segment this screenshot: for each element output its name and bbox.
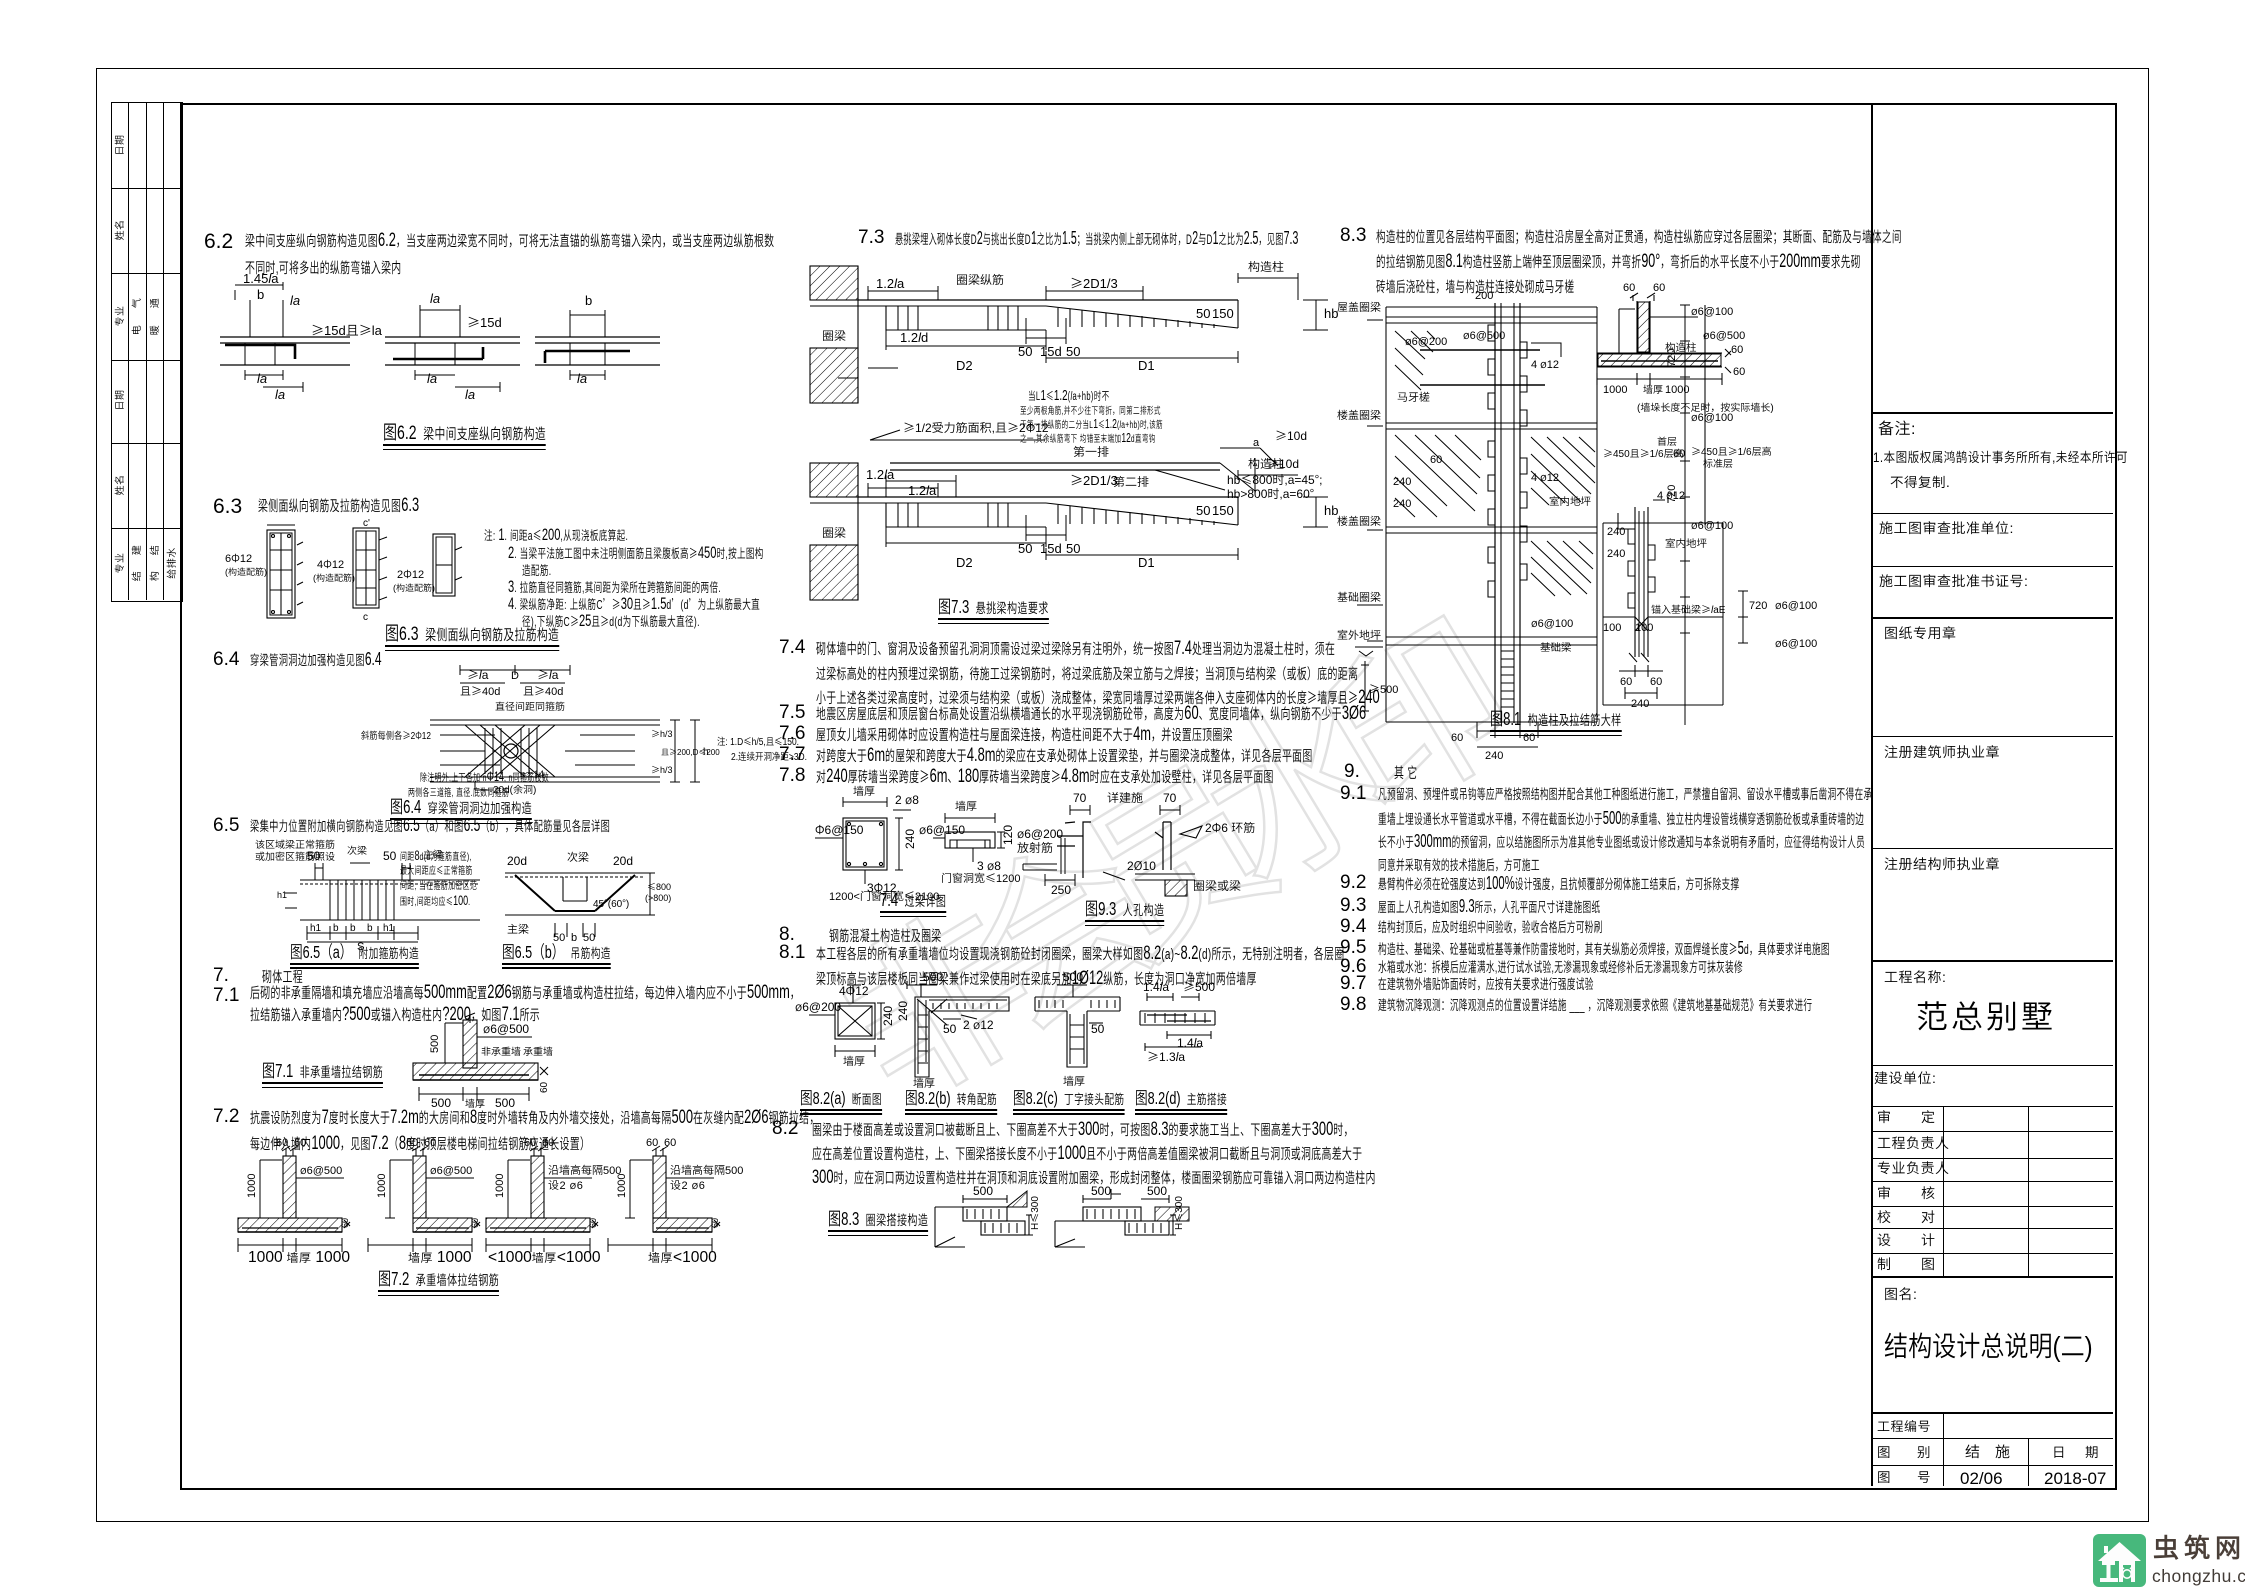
svg-text:120: 120 (999, 825, 1016, 845)
svg-text:200: 200 (1475, 287, 1493, 303)
svg-text:240: 240 (1607, 545, 1625, 561)
svg-text:ø6@100: ø6@100 (1775, 635, 1817, 651)
svg-text:≥1.3la: ≥1.3la (1147, 1048, 1185, 1065)
svg-text:1000: 1000 (1665, 381, 1689, 397)
figure 6.5b hanging bars (495, 845, 660, 945)
svg-text:2Φ6 环筋: 2Φ6 环筋 (1205, 819, 1255, 836)
svg-text:Φ6@150: Φ6@150 (815, 821, 864, 838)
svg-text:基础圈梁: 基础圈梁 (1337, 589, 1381, 605)
svg-text:D2: D2 (956, 552, 973, 571)
svg-text:50: 50 (383, 847, 397, 864)
svg-text:70: 70 (1163, 789, 1177, 806)
svg-text:240: 240 (894, 1001, 911, 1021)
svg-text:圈梁纵筋: 圈梁纵筋 (956, 271, 1004, 288)
svg-text:主梁: 主梁 (507, 921, 529, 937)
svg-text:150: 150 (1212, 500, 1234, 519)
svg-text:1000: 1000 (373, 1174, 389, 1198)
svg-text:标准层: 标准层 (1703, 455, 1733, 470)
svg-text:≥15d: ≥15d (467, 312, 502, 331)
svg-text:≥h/3: ≥h/3 (651, 727, 673, 740)
svg-text:60: 60 (708, 1218, 721, 1228)
(d) lap (1140, 1011, 1215, 1025)
svg-text:斜筋每侧各≥2Φ12: 斜筋每侧各≥2Φ12 (361, 727, 431, 742)
svg-text:室内地坪: 室内地坪 (1665, 536, 1707, 551)
svg-text:la: la (275, 384, 285, 403)
svg-text:50: 50 (1018, 538, 1032, 557)
svg-text:50: 50 (1066, 538, 1080, 557)
figure 7.1 non-bearing wall ties (405, 1015, 595, 1110)
svg-text:详建施: 详建施 (1107, 789, 1143, 806)
svg-text:(构造配筋): (构造配筋) (225, 565, 267, 578)
svg-text:1.4la: 1.4la (1143, 978, 1169, 995)
svg-text:(墙垛长度不足时，按实际墙长): (墙垛长度不足时，按实际墙长) (1637, 399, 1774, 414)
svg-text:240: 240 (1485, 747, 1503, 763)
svg-text:1.2la: 1.2la (876, 273, 905, 292)
svg-text:60: 60 (1653, 279, 1665, 295)
svg-text:1.2la: 1.2la (866, 464, 895, 483)
svg-text:楼盖圈梁: 楼盖圈梁 (1337, 513, 1381, 529)
svg-text:次梁: 次梁 (567, 849, 589, 865)
svg-text:≥500: ≥500 (1183, 978, 1215, 995)
section 6.4 (213, 650, 239, 669)
svg-text:圈梁或梁: 圈梁或梁 (1193, 877, 1241, 894)
svg-text:沿墙高每隔500: 沿墙高每隔500 (670, 1162, 743, 1178)
svg-text:60: 60 (1673, 445, 1685, 461)
figure 7.3 middle note + second排 (1028, 390, 1110, 403)
svg-text:la: la (290, 290, 300, 309)
svg-text:≥la: ≥la (467, 666, 489, 683)
svg-text:500: 500 (426, 1035, 442, 1053)
section 6.3 (213, 496, 242, 517)
svg-text:H≤300: H≤300 (1170, 1196, 1185, 1230)
section 7.2 (213, 1107, 239, 1126)
figure 7.4 lintel details (815, 790, 1015, 900)
svg-text:构造柱: 构造柱 (1248, 258, 1284, 275)
svg-text:2 ø8: 2 ø8 (895, 791, 919, 808)
svg-text:c: c (363, 608, 368, 623)
svg-text:且≥40d: 且≥40d (523, 683, 563, 699)
svg-text:圈梁: 圈梁 (822, 327, 846, 344)
svg-text:ø6@100: ø6@100 (1691, 303, 1733, 319)
svg-text:1000: 1000 (1603, 381, 1627, 397)
svg-text:240: 240 (901, 829, 918, 849)
svg-text:la: la (427, 368, 437, 387)
svg-text:720: 720 (1749, 597, 1767, 613)
svg-text:a: a (1253, 434, 1260, 450)
floor ring beams (1386, 423, 1597, 429)
svg-text:D1: D1 (1138, 355, 1155, 374)
svg-text:≥15d且≥la: ≥15d且≥la (311, 320, 383, 339)
svg-text:4 ø12: 4 ø12 (1657, 487, 1685, 503)
figure 8.3 ring beam lap (925, 1185, 1205, 1270)
svg-text:60: 60 (1650, 673, 1662, 689)
svg-text:≥h/3: ≥h/3 (651, 763, 673, 776)
svg-text:50: 50 (1091, 1020, 1105, 1037)
svg-text:50: 50 (1196, 500, 1210, 519)
notes right of 6.5a (400, 851, 472, 863)
figure 9.3 manhole (1015, 778, 1245, 898)
svg-text:c': c' (363, 514, 370, 529)
svg-text:D: D (511, 667, 519, 683)
svg-text:马牙槎: 马牙槎 (1397, 389, 1430, 405)
sections 7.4 - 7.8 (779, 638, 805, 657)
svg-text:240: 240 (1607, 523, 1625, 539)
svg-text:室内地坪: 室内地坪 (1549, 494, 1591, 509)
svg-text:240: 240 (1393, 473, 1411, 489)
svg-text:500: 500 (1091, 1182, 1111, 1199)
svg-text:圈梁: 圈梁 (822, 524, 846, 541)
svg-text:50: 50 (1018, 341, 1032, 360)
svg-text:墙厚: 墙厚 (1063, 1073, 1085, 1089)
figure 8.2 group ring-beam details (795, 985, 1215, 1090)
svg-text:≥450且≥1/6层高: ≥450且≥1/6层高 (1603, 445, 1684, 460)
svg-text:ø6@500: ø6@500 (300, 1162, 342, 1178)
svg-text:60: 60 (1451, 729, 1463, 745)
svg-text:1000: 1000 (613, 1174, 629, 1198)
svg-text:≥10d: ≥10d (1275, 427, 1307, 444)
svg-text:构造柱: 构造柱 (1248, 455, 1284, 472)
section 7 masonry (213, 966, 229, 985)
svg-text:D2: D2 (956, 355, 973, 374)
svg-text:60: 60 (542, 1134, 554, 1150)
svg-text:室外地坪: 室外地坪 (1337, 627, 1381, 643)
notes for figure 6.3 (484, 528, 628, 541)
left detail (935, 1207, 965, 1247)
svg-text:50: 50 (1196, 303, 1210, 322)
svg-text:la: la (257, 368, 267, 387)
svg-text:b: b (257, 284, 264, 303)
svg-text:100: 100 (1635, 619, 1653, 635)
central vertical dim chain (1680, 305, 1690, 425)
svg-text:50: 50 (943, 1020, 957, 1037)
svg-text:15d: 15d (1040, 341, 1062, 360)
svg-text:ø6@200: ø6@200 (1405, 333, 1447, 349)
svg-text:60: 60 (406, 1134, 418, 1150)
svg-text:ø6@150: ø6@150 (919, 821, 965, 838)
svg-text:60: 60 (1430, 451, 1442, 467)
svg-text:1000: 1000 (243, 1174, 259, 1198)
chongzhu logo (2093, 1534, 2146, 1587)
svg-text:(构造配筋): (构造配筋) (313, 571, 355, 584)
svg-text:20d: 20d (613, 852, 633, 869)
svg-text:(>800): (>800) (645, 891, 671, 904)
left elevation outer box (1386, 307, 1597, 722)
svg-text:240: 240 (1393, 495, 1411, 511)
svg-text:ø6@500: ø6@500 (483, 1020, 529, 1037)
svg-text:b: b (333, 919, 339, 934)
svg-text:150: 150 (1212, 303, 1234, 322)
roof ring beam double line (1386, 317, 1597, 323)
section 6.5 (213, 816, 239, 835)
bottom dims (1477, 722, 1538, 738)
beam 1 (220, 337, 350, 365)
figure 6.5a additional stirrups (255, 838, 505, 950)
svg-text:b: b (585, 290, 592, 309)
svg-text:≥la: ≥la (537, 666, 559, 683)
svg-text:4 ø12: 4 ø12 (1531, 356, 1559, 372)
svg-text:ø6@100: ø6@100 (1775, 597, 1817, 613)
figure 7.3 cantilever beam (lower) (808, 455, 1338, 605)
svg-text:b: b (350, 919, 356, 934)
section 9 misc (1344, 762, 1360, 781)
svg-text:墙厚: 墙厚 (843, 1053, 865, 1069)
svg-text:60: 60 (1623, 279, 1635, 295)
(a) section (835, 1003, 875, 1039)
svg-text:2Φ12: 2Φ12 (397, 566, 424, 582)
(c) T joint (1035, 997, 1120, 1011)
svg-text:且≥40d: 且≥40d (460, 683, 500, 699)
left leaders (1357, 320, 1383, 641)
svg-text:且≥200,D≤200: 且≥200,D≤200 (661, 747, 720, 758)
svg-text:≥1/2受力筋面积,且≥2Φ12: ≥1/2受力筋面积,且≥2Φ12 (903, 419, 1049, 436)
title block (1871, 103, 1873, 1486)
svg-text:≥2D1/3: ≥2D1/3 (1070, 273, 1118, 292)
svg-text:非承重墙: 非承重墙 (481, 1043, 521, 1058)
svg-text:4Φ12: 4Φ12 (317, 556, 344, 572)
beam 2 (385, 337, 520, 365)
svg-text:墙厚: 墙厚 (955, 798, 977, 814)
svg-text:500: 500 (973, 1182, 993, 1199)
svg-text:45°(60°): 45°(60°) (593, 895, 629, 910)
figure 7.3 cantilever beam (upper) (808, 258, 1338, 408)
horizontal tie bars near top (1420, 350, 1545, 385)
svg-text:1.2ld: 1.2ld (900, 327, 928, 346)
svg-text:1000: 1000 (491, 1174, 507, 1198)
figure 8.1 constructional column detail (large) (1335, 295, 1875, 755)
svg-text:60: 60 (276, 1134, 288, 1150)
svg-text:60: 60 (294, 1134, 306, 1150)
svg-text:承重墙: 承重墙 (523, 1043, 553, 1058)
svg-text:D1: D1 (1138, 552, 1155, 571)
figure 7.2 bearing wall ties (4 details) (230, 1148, 350, 1268)
section 8.3 (1340, 226, 1366, 245)
figure 6.4 pipe-hole strengthening (365, 665, 765, 795)
svg-text:ø6@500: ø6@500 (430, 1162, 472, 1178)
svg-text:60: 60 (586, 1218, 599, 1228)
svg-text:50: 50 (307, 847, 321, 864)
svg-text:屋盖圈梁: 屋盖圈梁 (1337, 299, 1381, 315)
svg-text:60: 60 (338, 1218, 351, 1228)
svg-text:60: 60 (535, 1081, 550, 1093)
figure 6.2 beam middle-support rebar details (215, 275, 665, 425)
svg-text:基础梁: 基础梁 (1540, 640, 1572, 655)
svg-text:b: b (367, 919, 373, 934)
svg-text:墙厚: 墙厚 (1643, 381, 1663, 396)
svg-text:60: 60 (664, 1134, 676, 1150)
svg-text:60: 60 (1733, 363, 1745, 379)
svg-text:1.2la: 1.2la (908, 480, 937, 499)
foundation ladder (1501, 645, 1514, 715)
watermark 非会员水印 (808, 602, 1501, 1117)
svg-text:20d: 20d (507, 852, 527, 869)
svg-text:70: 70 (1073, 789, 1087, 806)
section 8 (779, 925, 795, 944)
beam 3 (535, 337, 660, 365)
svg-text:15d: 15d (1040, 538, 1062, 557)
svg-text:4 ø12: 4 ø12 (1531, 469, 1559, 485)
right detail (1055, 1221, 1085, 1247)
(b) corner (915, 997, 1009, 1077)
svg-text:4Φ12: 4Φ12 (839, 982, 869, 999)
svg-text:240: 240 (1631, 695, 1649, 711)
svg-text:500: 500 (1147, 1182, 1167, 1199)
svg-text:≥500: ≥500 (1369, 681, 1398, 697)
svg-text:次梁: 次梁 (347, 842, 367, 857)
section 7.3 heading (858, 228, 884, 247)
svg-text:la: la (430, 288, 440, 307)
hatching patches (1395, 435, 1595, 517)
svg-text:ø6@100: ø6@100 (1531, 615, 1573, 631)
svg-text:H≤300: H≤300 (1026, 1196, 1041, 1230)
svg-text:ø6@100: ø6@100 (1691, 517, 1733, 533)
svg-text:放射筋: 放射筋 (1017, 839, 1053, 856)
svg-text:h1: h1 (277, 888, 287, 901)
svg-text:锚入基础梁≥laE: 锚入基础梁≥laE (1651, 601, 1726, 616)
svg-text:60: 60 (646, 1134, 658, 1150)
svg-text:ø6@200: ø6@200 (795, 998, 841, 1015)
section 6.2 heading (204, 231, 233, 252)
left signature strip (111, 102, 183, 602)
svg-text:(构造配筋): (构造配筋) (393, 581, 435, 594)
svg-text:500: 500 (923, 968, 943, 985)
toothed column 马牙槎 (1495, 303, 1520, 723)
svg-text:100: 100 (1603, 619, 1621, 635)
svg-text:楼盖圈梁: 楼盖圈梁 (1337, 407, 1381, 423)
svg-text:2 ø12: 2 ø12 (963, 1016, 994, 1033)
svg-text:250: 250 (1051, 881, 1071, 898)
ground beam (1386, 637, 1597, 645)
svg-text:60: 60 (524, 1134, 536, 1150)
svg-text:500: 500 (1063, 968, 1083, 985)
figure 6.3 beam side rebar sections (225, 520, 475, 625)
svg-text:2Ø10: 2Ø10 (1127, 857, 1156, 874)
svg-text:50: 50 (1066, 341, 1080, 360)
svg-text:60: 60 (1731, 341, 1743, 357)
svg-text:或加密区箍筋照设: 或加密区箍筋照设 (255, 848, 335, 863)
svg-text:60: 60 (1620, 673, 1632, 689)
svg-text:h: h (703, 743, 709, 758)
svg-text:60: 60 (424, 1134, 436, 1150)
svg-text:h1: h1 (310, 919, 322, 934)
svg-text:直径间距同箍筋: 直径间距同箍筋 (495, 698, 565, 713)
svg-text:h1: h1 (383, 919, 395, 934)
svg-text:6Φ12: 6Φ12 (225, 550, 252, 566)
section 8.2 (772, 1119, 798, 1138)
svg-text:构造柱: 构造柱 (1665, 340, 1697, 355)
svg-text:≥2D1/3: ≥2D1/3 (1070, 470, 1118, 489)
svg-text:墙厚: 墙厚 (853, 783, 875, 799)
inner thick frame (180, 103, 2117, 1490)
svg-text:la: la (577, 368, 587, 387)
svg-text:门窗洞宽≤1200: 门窗洞宽≤1200 (941, 870, 1020, 886)
svg-text:la: la (465, 384, 475, 403)
svg-text:ø6@500: ø6@500 (1463, 327, 1505, 343)
